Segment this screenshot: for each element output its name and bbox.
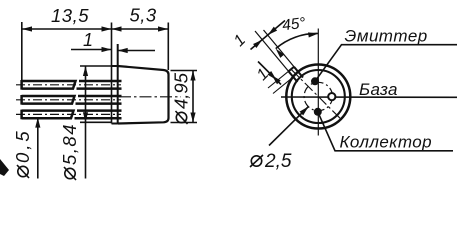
lead 1 (top) (22, 80, 122, 90)
dim line 5,3 (112, 28, 169, 30)
pin circle dash-dot (304, 82, 332, 110)
extension line can face up (167, 23, 169, 71)
svg-text:1: 1 (83, 30, 93, 50)
tab side B (289, 71, 298, 82)
inner circle (292, 70, 345, 123)
collector leader (318, 112, 453, 151)
45 deg arc (276, 33, 319, 48)
svg-text:0,5: 0,5 (12, 128, 33, 163)
horizontal centerline / base leader (281, 96, 457, 98)
extension line left (lead tips) (21, 22, 23, 87)
svg-text:5,3: 5,3 (130, 5, 157, 26)
tab width dim 1 (251, 21, 286, 50)
dim line 1 left part (71, 49, 112, 51)
svg-text:2,5: 2,5 (264, 151, 292, 172)
dia 4,95 dim (171, 70, 198, 72)
emitter leader (315, 45, 457, 82)
svg-text:Эмиттер: Эмиттер (345, 27, 428, 46)
dia 0,5 dim leader (37, 118, 39, 179)
extension line A x=111.5 (111, 23, 113, 124)
outer circle (286, 65, 350, 129)
dia 4,95 label (171, 72, 192, 124)
dia 5,84 dim (80, 65, 112, 67)
extension line B x=117.5 (117, 44, 119, 124)
dia 2,5 leader (269, 107, 309, 146)
dia 2,5 label (250, 151, 292, 172)
emitter pin (311, 77, 319, 85)
dia 0,5 label (12, 128, 33, 178)
centerline left view (119, 96, 181, 98)
tab cap (289, 67, 295, 72)
flange top cap (112, 65, 118, 67)
dim line 13,5 (22, 28, 112, 30)
svg-text:13,5: 13,5 (51, 5, 89, 26)
svg-text:5,84: 5,84 (59, 123, 80, 165)
scan artifact bottom-left (0, 159, 9, 176)
flange bottom cap (112, 123, 118, 125)
tab side A (294, 67, 303, 78)
svg-text:45°: 45° (281, 15, 306, 35)
base pin (328, 93, 335, 100)
svg-text:1: 1 (231, 32, 249, 50)
tab protrusion dim 1 (268, 71, 289, 88)
vertical centerline (317, 29, 319, 136)
svg-text:4,95: 4,95 (171, 72, 192, 109)
lead 3 (bottom) (22, 110, 122, 120)
svg-text:Коллектор: Коллектор (340, 133, 432, 152)
dim line 1 right part (118, 50, 155, 52)
body cone outline (118, 66, 169, 124)
dia 5,84 label (59, 123, 80, 180)
collector pin (314, 108, 322, 116)
lead 2 (middle) (22, 95, 122, 105)
tab axis dash-dot (291, 69, 340, 118)
svg-text:База: База (359, 80, 398, 99)
